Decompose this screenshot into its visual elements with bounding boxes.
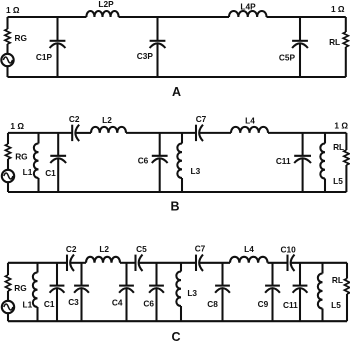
inductor L4P xyxy=(229,2,267,18)
wire B top rail segment 2 xyxy=(76,132,91,134)
wire C top rail segment 7 xyxy=(291,262,347,264)
svg-text:1 Ω: 1 Ω xyxy=(331,4,345,14)
svg-text:RG: RG xyxy=(15,33,27,43)
svg-text:L4: L4 xyxy=(244,244,254,254)
resistor RL (section B) xyxy=(333,133,349,192)
svg-text:C: C xyxy=(171,330,180,342)
svg-text:RL: RL xyxy=(333,142,344,152)
source generator (section B) xyxy=(2,170,14,182)
resistor RG (section B) xyxy=(5,133,27,170)
svg-text:C6: C6 xyxy=(138,156,149,166)
svg-text:1 Ω: 1 Ω xyxy=(334,121,348,131)
capacitor C6 (section B) xyxy=(138,133,168,192)
wire A bottom rail xyxy=(8,76,346,78)
wire C top rail segment 4 xyxy=(139,262,196,264)
wire B top rail segment 3 xyxy=(126,132,196,134)
inductor L3 (section B) xyxy=(177,133,200,192)
inductor L4 (section C) xyxy=(230,244,268,263)
svg-text:1 Ω: 1 Ω xyxy=(6,5,20,15)
svg-text:L2: L2 xyxy=(99,244,109,254)
value label 1 Ohm (section B load side) xyxy=(334,121,348,131)
wire A top rail segment 3 xyxy=(267,16,346,18)
svg-text:C9: C9 xyxy=(258,299,269,309)
inductor L4 (section B) xyxy=(231,116,268,133)
svg-text:L1: L1 xyxy=(23,300,33,310)
svg-text:L4P: L4P xyxy=(240,2,256,12)
value label 1 Ohm (section A load side) xyxy=(331,4,345,14)
wire C top rail segment 5 xyxy=(199,262,230,264)
svg-text:C5: C5 xyxy=(136,244,147,254)
capacitor C3P xyxy=(137,17,166,77)
capacitor C2 (series, section B) xyxy=(69,114,80,141)
capacitor C1P xyxy=(36,17,65,77)
svg-text:C11: C11 xyxy=(283,300,298,310)
capacitor C4 (section C) xyxy=(112,263,134,321)
wire B top rail segment 1 xyxy=(8,132,72,134)
inductor L2P xyxy=(86,0,118,17)
svg-text:C3: C3 xyxy=(68,297,79,307)
resistor RL (section C) xyxy=(332,263,350,321)
capacitor C5P xyxy=(279,17,308,77)
svg-text:1 Ω: 1 Ω xyxy=(10,121,24,131)
capacitor C8 (section C) xyxy=(207,263,230,321)
capacitor C5 (series, section C) xyxy=(136,244,148,271)
svg-text:RG: RG xyxy=(14,283,26,293)
capacitor C1 (section C) xyxy=(44,263,65,321)
svg-text:L3: L3 xyxy=(191,166,201,176)
wire A source to bottom rail xyxy=(6,66,8,77)
wire A top rail segment 2 xyxy=(119,16,229,18)
capacitor C11 (section B) xyxy=(276,133,311,192)
section label B xyxy=(170,200,179,214)
svg-text:C4: C4 xyxy=(112,298,123,308)
capacitor C2 (series, section C) xyxy=(66,244,77,271)
svg-text:C11: C11 xyxy=(276,156,291,166)
svg-text:C7: C7 xyxy=(195,243,206,253)
wire C top rail segment 3 xyxy=(120,262,136,264)
capacitor C3 (section C) xyxy=(68,263,89,321)
svg-text:C7: C7 xyxy=(196,114,207,124)
wire B source to bottom rail xyxy=(7,182,9,192)
svg-text:L4: L4 xyxy=(245,116,255,126)
wire C source to bottom rail xyxy=(7,313,9,321)
svg-text:A: A xyxy=(172,85,181,99)
resistor RG (section A) xyxy=(5,17,27,54)
svg-text:RL: RL xyxy=(329,37,340,47)
svg-text:C1: C1 xyxy=(44,299,55,309)
svg-text:C5P: C5P xyxy=(279,53,296,63)
inductor L1 (section C) xyxy=(23,263,38,321)
svg-text:RG: RG xyxy=(15,151,27,161)
inductor L1 (section B) xyxy=(23,133,39,192)
svg-text:C1P: C1P xyxy=(36,52,53,62)
value label 1 Ohm (section B source side) xyxy=(10,121,24,131)
resistor RG (section C) xyxy=(5,263,26,301)
wire C top rail segment 2 xyxy=(70,262,86,264)
inductor L5 (section C) xyxy=(318,263,341,321)
capacitor C7 (series, section B) xyxy=(196,114,207,141)
wire C top rail segment 6 xyxy=(268,262,288,264)
svg-text:L3: L3 xyxy=(187,288,197,298)
svg-text:C3P: C3P xyxy=(137,51,154,61)
svg-text:C10: C10 xyxy=(280,245,296,255)
resistor RL (section A) xyxy=(329,17,348,77)
wire B top rail segment 4 xyxy=(199,132,231,134)
capacitor C9 (section C) xyxy=(258,263,280,321)
wire A top rail segment 1 xyxy=(8,16,87,18)
capacitor C6 (section C) xyxy=(143,263,164,321)
wire C top rail segment 1 xyxy=(8,262,67,264)
capacitor C11 (section C) xyxy=(283,263,307,321)
svg-text:L2P: L2P xyxy=(98,0,114,9)
svg-text:C2: C2 xyxy=(66,244,77,254)
svg-text:C1: C1 xyxy=(45,168,56,178)
capacitor C10 (series, section C) xyxy=(280,245,296,271)
capacitor C1 (section B) xyxy=(45,133,66,192)
capacitor C7 (series, section C) xyxy=(195,243,206,271)
inductor L5 (section B) xyxy=(320,133,343,192)
source generator (section C) xyxy=(2,301,14,313)
svg-text:C6: C6 xyxy=(143,299,154,309)
svg-text:L5: L5 xyxy=(333,176,343,186)
value label 1 Ohm (section A source side) xyxy=(6,5,20,15)
inductor L2 (section B) xyxy=(91,115,126,133)
svg-text:L2: L2 xyxy=(102,115,112,125)
svg-text:C8: C8 xyxy=(207,299,218,309)
svg-text:RL: RL xyxy=(332,275,343,285)
svg-text:L5: L5 xyxy=(331,300,341,310)
wire C bottom rail xyxy=(8,320,347,322)
wire B bottom rail xyxy=(8,191,346,193)
source generator (section A) xyxy=(1,54,13,66)
svg-text:B: B xyxy=(170,200,179,214)
svg-text:C2: C2 xyxy=(69,114,80,124)
wire B top rail segment 5 xyxy=(268,132,346,134)
inductor L2 (section C) xyxy=(86,244,120,263)
section label A xyxy=(172,85,181,99)
inductor L3 (section C) xyxy=(176,263,197,321)
svg-text:L1: L1 xyxy=(23,167,33,177)
section label C xyxy=(171,330,180,342)
